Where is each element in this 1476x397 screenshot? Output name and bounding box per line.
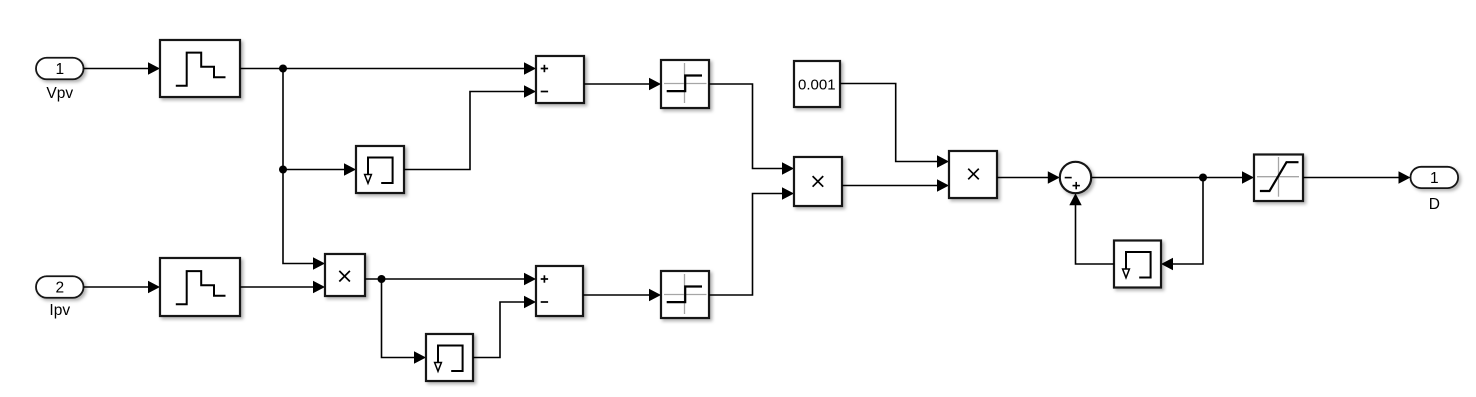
wire Saturation to Out1 xyxy=(1303,171,1411,183)
block Sign1 xyxy=(661,60,709,108)
wire node C to Memory2 xyxy=(382,279,427,364)
wire Sum3 to Saturation xyxy=(1091,171,1254,183)
junction node D xyxy=(1199,174,1207,182)
input port In2 (Ipv) xyxy=(36,276,84,298)
block Sign2 xyxy=(661,271,709,318)
wire Memory2 to Sum2 minus input xyxy=(473,296,536,358)
wire Sign1 to Product1 input1 xyxy=(709,84,794,175)
output port Out1 (D) xyxy=(1411,167,1459,188)
wire Constant to Product2 input1 xyxy=(840,84,949,168)
block Saturation xyxy=(1254,155,1303,202)
wire In1 to block RT1 xyxy=(84,62,161,74)
wire Memory1 to Sum1 minus input xyxy=(404,85,536,169)
svg-text:Ipv: Ipv xyxy=(49,302,70,319)
block Memory1 (unit delay of Vpv) xyxy=(356,146,404,193)
svg-text:1: 1 xyxy=(55,61,64,78)
svg-text:Vpv: Vpv xyxy=(46,85,73,102)
wire node D down to Memory3 input xyxy=(1161,178,1203,271)
junction node B xyxy=(279,166,287,174)
junction node C xyxy=(378,275,386,283)
wire In2 to block RT2 xyxy=(84,281,161,293)
wire Product1 to Product2 input2 xyxy=(842,179,949,191)
wire RT2 to Product Pv input2 xyxy=(240,281,325,293)
svg-text:2: 2 xyxy=(55,280,64,297)
input port In1 (Vpv) xyxy=(36,58,84,80)
svg-text:0.001: 0.001 xyxy=(798,76,836,93)
svg-text:D: D xyxy=(1429,196,1440,213)
block Sum3 round sum (- +) xyxy=(1060,162,1091,193)
block RT2 rate-transition (Ipv hold) xyxy=(160,258,240,316)
wire node B to Memory1 xyxy=(283,163,356,175)
block Product2 (step x 0.001) xyxy=(949,151,997,198)
block Product Pv (Vpv x Ipv) xyxy=(325,254,365,296)
wire node A down to Product Pv (vertical branch) xyxy=(283,69,325,270)
block Memory2 (unit delay of Ppv) xyxy=(426,334,473,381)
wire Product Pv to Sum2 plus input xyxy=(365,273,536,285)
block Sum1 (Add +-) xyxy=(536,56,584,103)
junction node A xyxy=(279,65,287,73)
block Memory3 (unit delay of D, mirrored) xyxy=(1114,241,1161,288)
block Product1 (sign x sign) xyxy=(794,157,842,206)
wire Memory3 to Sum3 plus input xyxy=(1069,193,1114,264)
block Constant 0.001 xyxy=(794,61,840,107)
wire Sum2 to Sign2 xyxy=(583,289,661,301)
wire RT1 to Sum1 plus input xyxy=(240,62,536,74)
block RT1 rate-transition (Vpv hold) xyxy=(160,40,240,97)
wire Sign2 to Product1 input2 xyxy=(709,187,794,295)
wire Sum1 to Sign1 xyxy=(584,78,661,90)
wire Product2 to round Sum3 xyxy=(997,171,1060,183)
block Sum2 (Add +-) xyxy=(536,266,583,316)
svg-text:1: 1 xyxy=(1430,170,1439,187)
